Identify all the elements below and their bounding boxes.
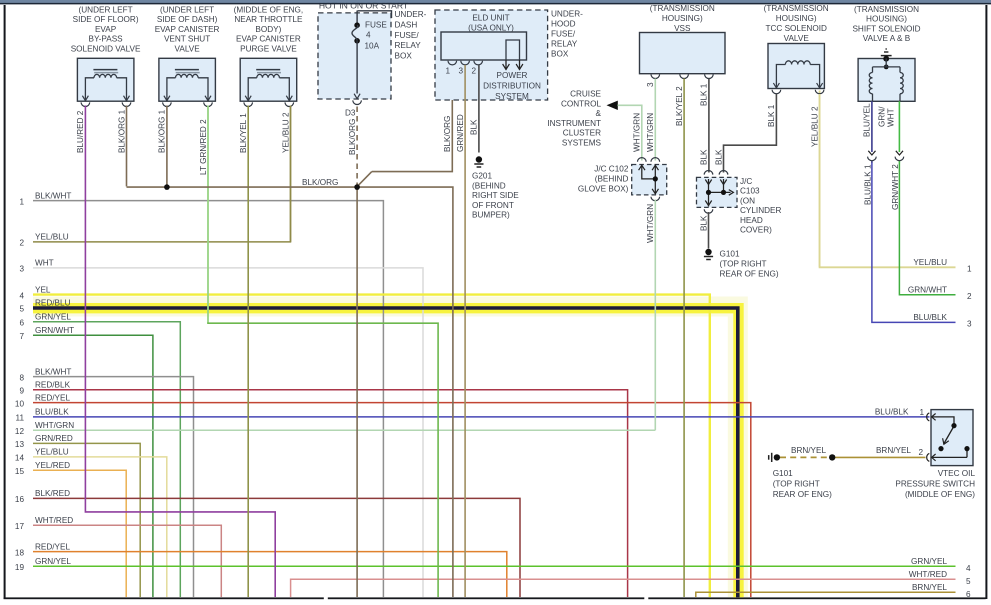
svg-text:REAR OF ENG): REAR OF ENG)	[773, 490, 832, 499]
label net 8	[19, 367, 71, 382]
svg-text:BLK/WHT: BLK/WHT	[35, 367, 71, 376]
svg-text:14: 14	[15, 454, 25, 463]
label G101 (top right rear of eng)	[720, 250, 779, 279]
svg-text:VTEC OIL: VTEC OIL	[938, 469, 976, 478]
wire GRN/YEL (net 6)	[33, 322, 180, 597]
svg-text:GRN/RED: GRN/RED	[35, 434, 73, 443]
wire LT GRN/RED pin2 of vent shut valve	[207, 106, 438, 598]
svg-text:RELAY: RELAY	[395, 41, 422, 50]
ELD unit inner box U1	[441, 32, 527, 70]
svg-text:12: 12	[15, 427, 25, 436]
wire BLK/ORG from ELD pin 1	[372, 65, 453, 172]
svg-text:DISTRIBUTION: DISTRIBUTION	[483, 81, 541, 90]
pin label WHT/GRN (cruise wire)	[633, 113, 642, 152]
label net 9	[19, 381, 70, 396]
pin label BLK (ELD 2)	[470, 119, 479, 135]
svg-text:13: 13	[15, 440, 25, 449]
svg-text:VSS: VSS	[674, 24, 691, 33]
bottom page border	[4, 597, 986, 600]
pin label BLK/ORG (ELD 1)	[443, 116, 452, 152]
label UNDER-DASH FUSE/RELAY BOX	[395, 10, 427, 61]
label UNDER-HOOD FUSE/RELAY BOX	[551, 10, 583, 59]
label CRUISE CONTROL and INSTRUMENT CLUSTER SYSTEMS	[547, 90, 601, 148]
label net 17	[15, 516, 73, 531]
svg-text:YEL: YEL	[35, 285, 51, 294]
svg-text:WHT: WHT	[887, 108, 896, 127]
svg-text:19: 19	[15, 563, 25, 572]
svg-text:(ON: (ON	[740, 196, 755, 205]
pin label BLK 1 (VSS)	[700, 83, 709, 106]
svg-text:WHT/RED: WHT/RED	[909, 570, 947, 579]
svg-text:HOUSING): HOUSING)	[866, 15, 907, 24]
svg-text:HOUSING): HOUSING)	[662, 14, 703, 23]
label net 15	[15, 461, 70, 476]
label right 5 WHT/RED	[909, 570, 971, 586]
label net 13	[15, 434, 73, 449]
extra BLK label (right C103 wire)	[714, 149, 723, 165]
label POWER DISTRIBUTION SYSTEM	[483, 71, 541, 101]
svg-text:BRN/YEL: BRN/YEL	[791, 446, 826, 455]
svg-text:(USA ONLY): (USA ONLY)	[468, 24, 514, 33]
wire WHT/GRN from C102 to net 12	[654, 200, 656, 431]
label right 3 BLU/BLK	[913, 313, 972, 329]
svg-text:BUMPER): BUMPER)	[472, 211, 510, 220]
junction connector J/C C103	[697, 171, 738, 214]
right page border	[985, 5, 987, 599]
svg-text:1: 1	[446, 67, 451, 76]
svg-text:G201: G201	[472, 172, 492, 181]
label net 18	[15, 542, 71, 557]
svg-text:BLK: BLK	[714, 149, 723, 165]
svg-text:3: 3	[459, 67, 464, 76]
label net 2	[19, 233, 68, 248]
pin label WHT/GRN (C102 out)	[646, 204, 655, 243]
svg-text:10: 10	[15, 399, 25, 408]
wire BRN/YEL solid to VTEC pin 2	[832, 456, 925, 458]
svg-text:POWER: POWER	[497, 71, 528, 80]
wire RED/BLU highlight halo (net 5)	[33, 307, 738, 598]
wire BLK/ORG from fuse (dashed)	[356, 107, 358, 187]
ground G101 (left, at VTEC wire)	[769, 453, 780, 462]
svg-text:G101: G101	[720, 250, 740, 259]
wire BRN/YEL dashed to G101	[780, 456, 829, 458]
svg-text:(TOP RIGHT: (TOP RIGHT	[720, 260, 767, 269]
svg-text:VALVE: VALVE	[175, 44, 201, 53]
svg-text:BLK: BLK	[470, 119, 479, 135]
svg-text:YEL/RED: YEL/RED	[35, 461, 70, 470]
svg-text:BLK/ORG: BLK/ORG	[443, 116, 452, 152]
svg-text:YEL/BLU 2: YEL/BLU 2	[810, 106, 819, 147]
junction connector J/C C102	[632, 158, 667, 201]
solenoid valve: EVAP BY-PASS (under left side of floor)	[71, 6, 141, 107]
arrow to cruise control	[607, 101, 618, 110]
svg-text:GLOVE BOX): GLOVE BOX)	[578, 185, 629, 194]
wire YEL/BLU to right connector 1	[820, 91, 956, 268]
label right 6 BRN/YEL	[912, 583, 971, 599]
svg-text:SIDE OF FLOOR): SIDE OF FLOOR)	[73, 15, 139, 24]
wire RED/BLU highlight band	[33, 308, 739, 597]
svg-text:SIDE OF DASH): SIDE OF DASH)	[157, 15, 218, 24]
label G101 (top right rear of eng) left	[773, 469, 832, 499]
wire GRN/WHT (net 7)	[33, 335, 153, 597]
TCC solenoid valve box (transmission housing)	[764, 4, 829, 94]
svg-text:15: 15	[15, 467, 25, 476]
wire WHT/GRN from VSS pin 3	[654, 79, 656, 161]
pin label BLK/YEL 1	[239, 113, 248, 153]
junction dot BRN/YEL	[829, 454, 835, 460]
svg-text:8: 8	[19, 373, 24, 382]
svg-text:16: 16	[15, 495, 25, 504]
wire BRN/YEL right 6	[696, 592, 956, 597]
svg-text:VALVE: VALVE	[784, 34, 810, 43]
svg-text:D3: D3	[345, 109, 356, 118]
svg-text:GRN/: GRN/	[878, 106, 887, 127]
junction dot (fuse BLK/ORG)	[354, 184, 360, 190]
svg-text:TCC SOLENOID: TCC SOLENOID	[765, 24, 827, 33]
label net 3	[19, 259, 53, 274]
wire BLU/BLK (net 11)	[33, 416, 930, 418]
wire BLK/ORG pin1 of vent shut valve	[166, 106, 168, 187]
svg-text:C103: C103	[740, 187, 760, 196]
wire YEL/BLU from TCC pin 2 (to right 1)	[819, 94, 821, 267]
solenoid valve: EVAP CANISTER PURGE (middle of eng)	[234, 6, 304, 107]
svg-text:CLUSTER: CLUSTER	[563, 129, 601, 138]
wire GRN/RED from ELD pin 3	[464, 65, 466, 597]
svg-text:2: 2	[19, 239, 24, 248]
svg-text:(TRANSMISSION: (TRANSMISSION	[764, 4, 829, 13]
svg-text:1: 1	[920, 408, 925, 417]
wire WHT/GRN from cruise arrow to C102	[618, 105, 642, 160]
svg-text:WHT/RED: WHT/RED	[35, 516, 73, 525]
svg-text:GRN/WHT 2: GRN/WHT 2	[891, 164, 900, 210]
label BRN/YEL (dashed segment)	[791, 446, 826, 455]
svg-text:HEAD: HEAD	[740, 216, 763, 225]
pin label LT GRN/RED 2	[199, 119, 208, 175]
svg-text:EVAP CANISTER: EVAP CANISTER	[155, 25, 220, 34]
wire GRN/WHT to right connector 2	[899, 163, 955, 295]
svg-text:3: 3	[967, 320, 972, 329]
pin label GRN/WHT (2-line)	[878, 106, 896, 127]
wire YEL/BLU (net 14)	[33, 457, 167, 597]
svg-text:BLK/ORG 1: BLK/ORG 1	[117, 109, 126, 153]
svg-text:FUSE/: FUSE/	[551, 30, 576, 39]
label net 12	[15, 421, 74, 436]
svg-text:CYLINDER: CYLINDER	[740, 206, 781, 215]
svg-text:SHIFT SOLENOID: SHIFT SOLENOID	[852, 24, 920, 33]
wire BLU/RED pin2 of by-pass valve	[85, 106, 275, 598]
svg-text:4: 4	[366, 30, 371, 39]
pin label BLK/ORG 1	[117, 109, 126, 153]
wire BLU/BLK to right connector 3	[872, 163, 956, 322]
wire RED/YEL (net 18)	[33, 552, 507, 597]
svg-text:BLU/RED 2: BLU/RED 2	[76, 110, 85, 153]
svg-text:6: 6	[19, 319, 24, 328]
label BLU/BLK 1 (VTEC pin1)	[875, 408, 925, 418]
svg-text:RIGHT SIDE: RIGHT SIDE	[472, 191, 519, 200]
svg-text:BLU/BLK 1: BLU/BLK 1	[863, 164, 872, 205]
wire WHT/RED right 5	[291, 579, 956, 597]
label BRN/YEL 2 (solid segment)	[876, 446, 924, 457]
wire YEL/BLU (net 2)	[33, 106, 291, 242]
svg-text:2: 2	[967, 292, 972, 301]
label net 11	[16, 408, 70, 423]
svg-text:RED/BLK: RED/BLK	[35, 381, 71, 390]
svg-text:17: 17	[15, 522, 25, 531]
svg-text:VALVE A & B: VALVE A & B	[863, 34, 911, 43]
svg-text:EVAP CANISTER: EVAP CANISTER	[236, 35, 301, 44]
label right 4 GRN/YEL	[911, 557, 971, 573]
svg-text:YEL/BLU 2: YEL/BLU 2	[281, 112, 290, 153]
svg-text:BLU/BLK: BLU/BLK	[35, 408, 69, 417]
svg-text:11: 11	[16, 414, 25, 423]
wire WHT/RED (net 17)	[33, 525, 221, 597]
wire BLK/YEL pin1 of purge valve	[247, 106, 249, 598]
inline connector (shift B wire)	[895, 151, 904, 161]
solenoid valve: EVAP CANISTER VENT SHUT (under left side of dash)	[155, 6, 220, 107]
wire YEL (net 4)	[33, 295, 710, 597]
wire BLK from TCC pin 1 to C103	[724, 94, 777, 173]
svg-text:J/C C102: J/C C102	[594, 165, 629, 174]
svg-text:1: 1	[967, 265, 972, 274]
wire WHT (net 3)	[33, 268, 423, 597]
label net 16	[15, 489, 70, 504]
svg-text:4: 4	[19, 291, 24, 300]
junction dot (vent-shut BLK/ORG)	[164, 184, 170, 190]
extra BLK label (left C103 wire)	[700, 149, 709, 165]
wire GRN/RED (net 13)	[33, 443, 140, 597]
label net 19	[15, 557, 72, 572]
VTEC oil pressure switch box	[931, 410, 973, 466]
ground G101 (top right rear of eng)	[704, 249, 713, 260]
svg-text:RED/YEL: RED/YEL	[35, 393, 70, 402]
svg-text:2: 2	[472, 67, 477, 76]
svg-text:GRN/RED: GRN/RED	[456, 114, 465, 152]
svg-text:4: 4	[966, 564, 971, 573]
wire BLK/ORG junction horizontal	[127, 172, 453, 597]
label net 6	[19, 313, 71, 328]
svg-text:GRN/YEL: GRN/YEL	[911, 557, 947, 566]
svg-text:UNDER-: UNDER-	[395, 10, 427, 19]
svg-text:OF FRONT: OF FRONT	[472, 201, 514, 210]
svg-text:YEL/BLU: YEL/BLU	[913, 258, 947, 267]
svg-text:ELD UNIT: ELD UNIT	[472, 14, 509, 23]
svg-text:(UNDER LEFT: (UNDER LEFT	[160, 6, 214, 15]
svg-text:SYSTEMS: SYSTEMS	[562, 139, 602, 148]
svg-text:9: 9	[19, 387, 24, 396]
left page border	[4, 5, 6, 599]
wire BLU/YEL from shift solenoid A	[871, 101, 873, 163]
wire BLK/RED (net 16)	[33, 498, 520, 597]
svg-text:1: 1	[19, 197, 24, 206]
svg-text:WHT/GRN: WHT/GRN	[633, 113, 642, 152]
svg-text:BOX: BOX	[551, 50, 569, 59]
svg-text:(BEHIND: (BEHIND	[472, 181, 506, 190]
connector D3	[345, 109, 356, 118]
svg-text:(BEHIND: (BEHIND	[595, 175, 629, 184]
label net 5	[19, 299, 70, 314]
shift solenoid valve A & B box	[852, 5, 920, 101]
under-hood fuse/relay box (ELD, dashed)	[435, 10, 548, 100]
label net 14	[15, 448, 69, 463]
wire BLK from C103 to G101	[708, 212, 710, 249]
wire BLK/WHT (net 1)	[33, 201, 383, 597]
wire BLK/ORG pin1 of by-pass valve	[126, 106, 128, 187]
wire YEL/RED (net 15)	[33, 470, 126, 597]
wire RED/BLU core (net 5 highlighted)	[33, 308, 738, 597]
svg-text:(TRANSMISSION: (TRANSMISSION	[650, 4, 715, 13]
pin label BLU/RED 2	[76, 110, 85, 153]
svg-text:RELAY: RELAY	[551, 40, 578, 49]
wire GRN/YEL (net 19)	[33, 565, 956, 567]
svg-text:SOLENOID VALVE: SOLENOID VALVE	[71, 44, 141, 53]
svg-text:BODY): BODY)	[255, 25, 281, 34]
svg-text:LT GRN/RED 2: LT GRN/RED 2	[199, 119, 208, 175]
svg-text:BLU/BLK: BLU/BLK	[875, 408, 909, 417]
svg-text:BLK/YEL 2: BLK/YEL 2	[675, 86, 684, 126]
svg-text:PURGE VALVE: PURGE VALVE	[240, 44, 297, 53]
pin label BLU/BLK 1	[863, 164, 872, 205]
svg-text:BY-PASS: BY-PASS	[89, 35, 124, 44]
wire RED/BLK (net 9)	[33, 390, 628, 597]
ELD pins 1 3 2	[446, 61, 483, 76]
svg-text:(TOP RIGHT: (TOP RIGHT	[773, 479, 820, 488]
pin label BLK/YEL 2 (VSS)	[675, 86, 684, 126]
svg-text:(TRANSMISSION: (TRANSMISSION	[854, 5, 919, 14]
pin label YEL/BLU 2 (TCC)	[810, 106, 819, 147]
svg-text:SYSTEM: SYSTEM	[495, 92, 529, 101]
svg-text:WHT: WHT	[35, 259, 54, 268]
svg-text:RED/BLU: RED/BLU	[35, 299, 71, 308]
svg-text:BLK/YEL 1: BLK/YEL 1	[239, 113, 248, 153]
svg-text:HOOD: HOOD	[551, 20, 576, 29]
svg-text:7: 7	[19, 332, 24, 341]
svg-text:J/C: J/C	[740, 177, 752, 186]
label BLK/ORG (junction)	[302, 178, 338, 187]
svg-text:(MIDDLE OF ENG,: (MIDDLE OF ENG,	[234, 6, 304, 15]
svg-text:RED/YEL: RED/YEL	[35, 542, 70, 551]
svg-text:BLK 1: BLK 1	[700, 83, 709, 106]
ground G201	[474, 156, 483, 167]
svg-text:CONTROL: CONTROL	[561, 99, 601, 108]
svg-text:(MIDDLE OF ENG): (MIDDLE OF ENG)	[905, 490, 975, 499]
svg-text:BLK: BLK	[699, 215, 708, 231]
inline connector (shift A wire)	[868, 151, 877, 161]
svg-text:YEL/BLU: YEL/BLU	[35, 448, 69, 457]
svg-text:3: 3	[19, 265, 24, 274]
svg-text:&: &	[596, 109, 602, 118]
pin label YEL/BLU 2	[281, 112, 290, 153]
svg-text:BLK/WHT: BLK/WHT	[35, 191, 71, 200]
wire BLK/YEL from VSS pin 2	[683, 79, 685, 598]
svg-text:BRN/YEL: BRN/YEL	[912, 583, 947, 592]
label net 7	[19, 326, 74, 341]
label right 2 GRN/WHT	[908, 286, 972, 302]
wire BLK from VSS pin 1	[708, 79, 710, 173]
pin label GRN/WHT 2	[891, 164, 900, 210]
VSS box (transmission housing)	[640, 4, 726, 78]
svg-text:BLU/YEL: BLU/YEL	[863, 103, 872, 137]
fuse 4 10A	[352, 11, 387, 105]
svg-text:2: 2	[919, 448, 924, 457]
label J/C C103 (on cylinder head cover)	[740, 177, 781, 235]
svg-text:PRESSURE SWITCH: PRESSURE SWITCH	[895, 479, 975, 488]
svg-text:GRN/WHT: GRN/WHT	[908, 286, 947, 295]
svg-text:G101: G101	[773, 469, 793, 478]
wire BLK/WHT (net 8)	[33, 377, 194, 597]
svg-text:NEAR THROTTLE: NEAR THROTTLE	[234, 15, 303, 24]
svg-text:GRN/YEL: GRN/YEL	[35, 557, 71, 566]
svg-text:BLK/ORG: BLK/ORG	[302, 178, 338, 187]
svg-text:WHT/GRN: WHT/GRN	[646, 204, 655, 243]
label HOT IN ON OR START (clipped by header band)	[0, 0, 991, 11]
svg-text:BLK: BLK	[700, 149, 709, 165]
VTEC pin 2 connector	[927, 453, 936, 461]
svg-text:DASH: DASH	[395, 20, 418, 29]
svg-text:YEL/BLU: YEL/BLU	[35, 233, 69, 242]
svg-text:BLU/BLK: BLU/BLK	[913, 313, 947, 322]
wire BLK from ELD pin 2	[478, 65, 480, 153]
svg-text:3: 3	[646, 82, 655, 87]
VTEC pin 1 connector	[927, 413, 936, 421]
svg-text:BLK/ORG 1: BLK/ORG 1	[158, 109, 167, 153]
svg-text:GRN/WHT: GRN/WHT	[35, 326, 74, 335]
svg-text:UNDER-: UNDER-	[551, 10, 583, 19]
svg-text:5: 5	[966, 577, 971, 586]
wire YEL/BLU pin2 of purge valve (to net 2)	[290, 106, 292, 242]
svg-text:BLK 1: BLK 1	[767, 104, 776, 127]
svg-text:WHT/GRN: WHT/GRN	[646, 113, 655, 152]
svg-text:BLK/RED: BLK/RED	[35, 489, 70, 498]
wire RED/YEL (net 10)	[33, 403, 751, 597]
label VTEC OIL PRESSURE SWITCH (MIDDLE OF ENG)	[895, 469, 975, 499]
label net 4	[19, 285, 50, 300]
pin label BLK/ORG (fuse wire)	[348, 119, 357, 155]
svg-text:WHT/GRN: WHT/GRN	[35, 421, 74, 430]
wire GRN/WHT from shift solenoid B	[898, 101, 900, 163]
svg-text:INSTRUMENT: INSTRUMENT	[547, 119, 601, 128]
svg-text:VENT SHUT: VENT SHUT	[164, 35, 210, 44]
header band	[0, 0, 991, 4]
svg-text:FUSE/: FUSE/	[395, 31, 420, 40]
pin label GRN/RED (ELD 3)	[456, 114, 465, 152]
svg-text:BRN/YEL: BRN/YEL	[876, 446, 911, 455]
label G201 (behind right side of front bumper)	[472, 172, 519, 220]
pin label BLK/ORG 1	[158, 109, 167, 153]
label net 10	[15, 393, 71, 408]
svg-text:FUSE: FUSE	[365, 20, 387, 29]
svg-text:GRN/YEL: GRN/YEL	[35, 313, 71, 322]
under-dash fuse/relay box (dashed)	[318, 11, 392, 99]
pin label WHT/GRN (VSS 3)	[646, 113, 655, 152]
svg-text:5: 5	[19, 305, 24, 314]
svg-text:EVAP: EVAP	[95, 25, 117, 34]
svg-text:6: 6	[966, 590, 971, 599]
wire WHT/GRN (net 12)	[33, 429, 655, 431]
svg-text:COVER): COVER)	[740, 226, 772, 235]
pin label BLK (C103 out)	[699, 215, 708, 231]
svg-text:REAR OF ENG): REAR OF ENG)	[720, 270, 779, 279]
svg-text:18: 18	[15, 548, 25, 557]
svg-text:HOUSING): HOUSING)	[776, 14, 817, 23]
svg-text:BLK/ORG: BLK/ORG	[348, 119, 357, 155]
svg-text:CRUISE: CRUISE	[570, 90, 601, 99]
pin label 3 (VSS)	[646, 82, 655, 87]
pin label BLU/YEL	[863, 103, 872, 137]
svg-text:BOX: BOX	[395, 52, 413, 61]
svg-text:10A: 10A	[365, 41, 380, 50]
label J/C C102 (behind glove box)	[578, 165, 629, 194]
svg-text:(UNDER LEFT: (UNDER LEFT	[79, 6, 133, 15]
